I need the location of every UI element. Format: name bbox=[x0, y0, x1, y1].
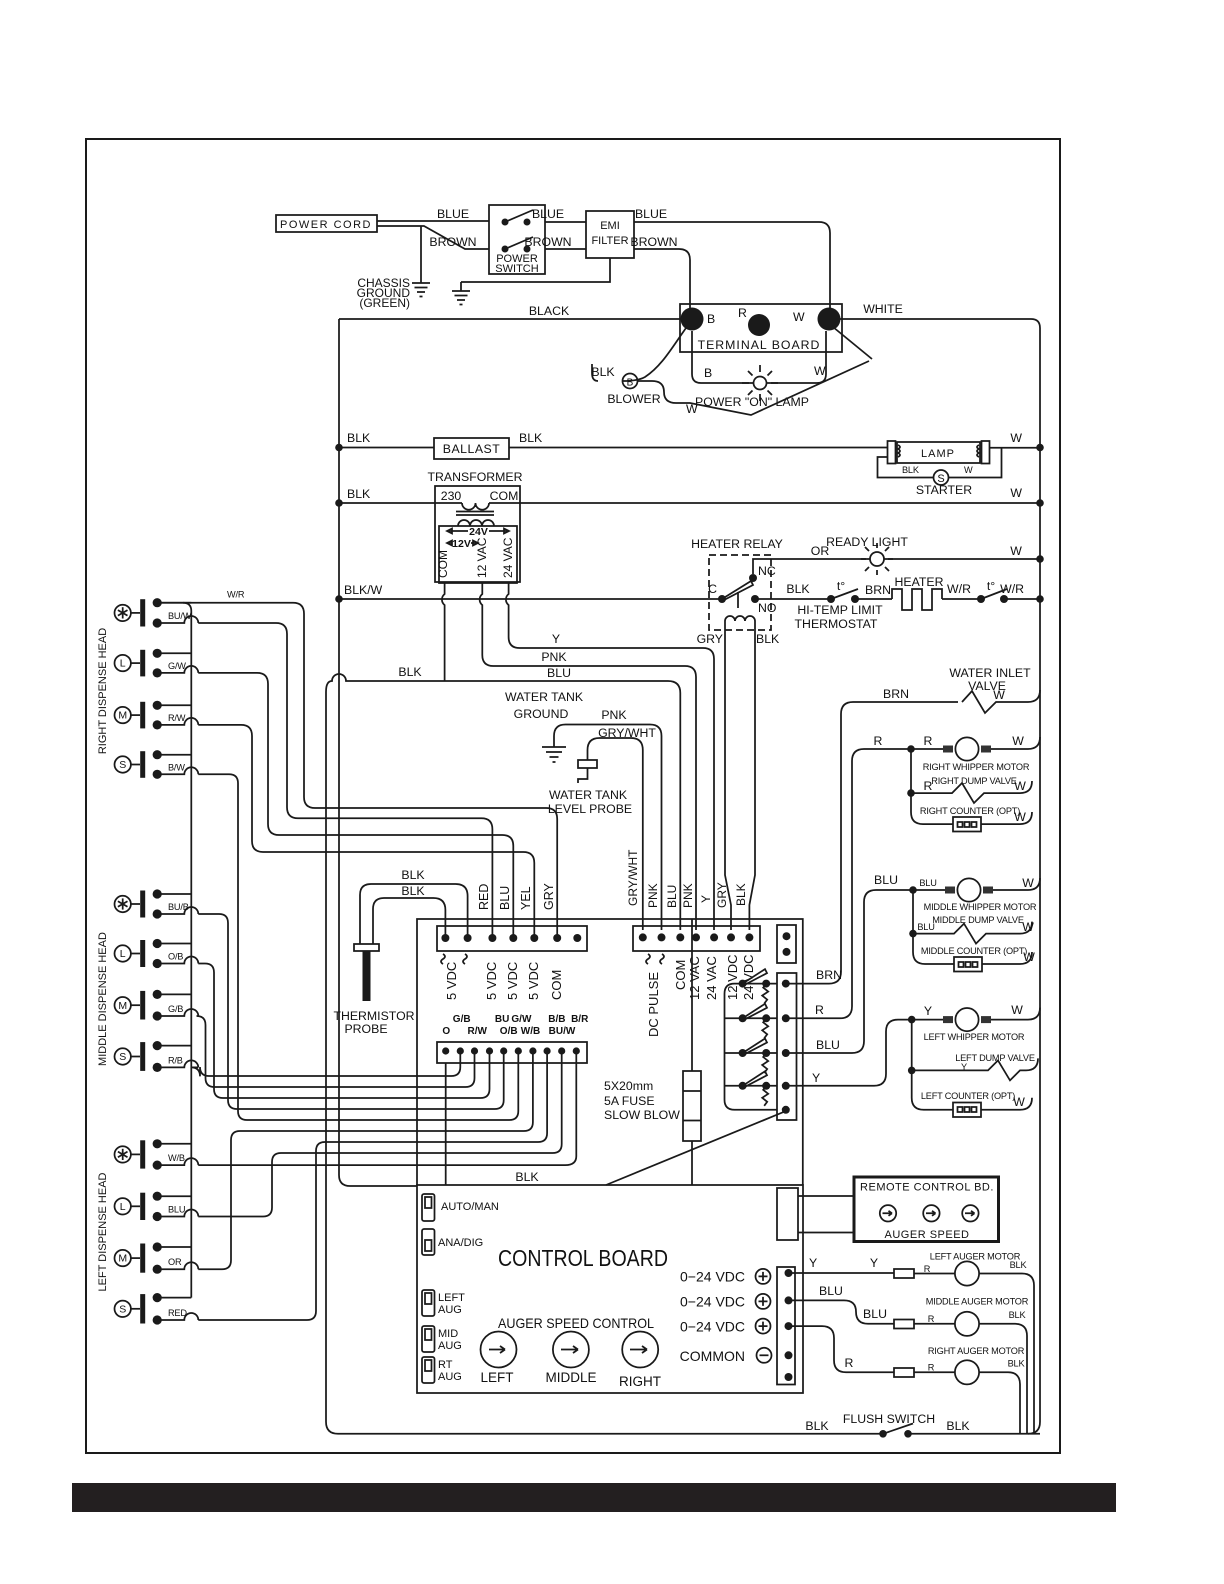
svg-text:EMI: EMI bbox=[600, 220, 620, 232]
ready light row bbox=[790, 535, 1044, 575]
svg-text:M: M bbox=[118, 1000, 127, 1012]
svg-text:B: B bbox=[707, 312, 715, 326]
svg-text:BLK: BLK bbox=[805, 1419, 829, 1433]
svg-text:NO: NO bbox=[758, 601, 776, 615]
svg-text:RIGHT AUGER MOTOR: RIGHT AUGER MOTOR bbox=[928, 1346, 1025, 1356]
wire BLK horizontal to BLU pin3 bbox=[326, 674, 680, 930]
right whipper motor bbox=[874, 734, 1040, 772]
svg-text:BRN: BRN bbox=[865, 583, 891, 597]
svg-text:RIGHT WHIPPER MOTOR: RIGHT WHIPPER MOTOR bbox=[923, 762, 1030, 772]
svg-text:Y: Y bbox=[924, 1004, 932, 1018]
svg-text:BLK: BLK bbox=[902, 465, 920, 475]
svg-text:W: W bbox=[1013, 1095, 1025, 1109]
relay switches bbox=[725, 969, 778, 1110]
terminal board bbox=[680, 304, 842, 352]
svg-text:MIDDLE AUGER MOTOR: MIDDLE AUGER MOTOR bbox=[926, 1297, 1029, 1307]
wire blue EMI to terminal board W bbox=[634, 222, 830, 308]
dispense head contact R/B bbox=[115, 1041, 199, 1072]
svg-text:BLK: BLK bbox=[734, 883, 748, 906]
svg-text:W: W bbox=[1010, 544, 1022, 558]
svg-text:BLK: BLK bbox=[786, 582, 810, 596]
dispense head contact G/B bbox=[115, 990, 199, 1021]
EMI filter bbox=[586, 211, 634, 258]
wire BLU to control connector bbox=[198, 1051, 561, 1217]
svg-text:R: R bbox=[815, 1003, 824, 1017]
svg-text:0−24 VDC: 0−24 VDC bbox=[680, 1269, 745, 1285]
svg-text:BU/W: BU/W bbox=[168, 611, 192, 621]
svg-text:COM: COM bbox=[490, 489, 519, 503]
svg-text:R/B: R/B bbox=[168, 1055, 183, 1065]
svg-text:BLU: BLU bbox=[819, 1284, 843, 1298]
svg-text:(GREEN): (GREEN) bbox=[359, 296, 410, 310]
svg-text:24V: 24V bbox=[469, 526, 488, 538]
svg-text:5X20mm: 5X20mm bbox=[604, 1079, 653, 1093]
svg-text:W/R: W/R bbox=[227, 590, 245, 600]
left whipper motor bbox=[908, 1003, 1040, 1042]
svg-text:W: W bbox=[1022, 876, 1034, 890]
svg-text:FILTER: FILTER bbox=[591, 235, 628, 247]
wire G/W to 5VDC connector bbox=[198, 673, 513, 938]
svg-text:AUGER SPEED CONTROL: AUGER SPEED CONTROL bbox=[498, 1315, 654, 1331]
svg-text:BLACK: BLACK bbox=[529, 304, 570, 318]
svg-text:W: W bbox=[1010, 431, 1022, 445]
svg-text:BLK: BLK bbox=[591, 365, 615, 379]
W/R thermostat switch bbox=[977, 579, 1008, 603]
svg-text:READY LIGHT: READY LIGHT bbox=[826, 535, 908, 549]
svg-text:MIDDLE COUNTER (OPT): MIDDLE COUNTER (OPT) bbox=[921, 946, 1027, 956]
wire white to right bus bbox=[840, 319, 1040, 328]
svg-text:L: L bbox=[120, 658, 126, 670]
svg-text:O/B: O/B bbox=[168, 952, 183, 962]
svg-text:BU/B: BU/B bbox=[168, 902, 189, 912]
svg-text:BRN: BRN bbox=[883, 687, 909, 701]
svg-text:W/B: W/B bbox=[168, 1153, 185, 1163]
svg-text:BLU: BLU bbox=[919, 878, 936, 888]
svg-text:BRN: BRN bbox=[816, 968, 842, 982]
svg-text:R: R bbox=[738, 306, 747, 320]
svg-text:LEFT: LEFT bbox=[480, 1370, 513, 1385]
svg-text:B/R: B/R bbox=[571, 1014, 589, 1025]
fuse 5x20mm bbox=[604, 919, 701, 1185]
switch MID AUG bbox=[422, 1326, 462, 1352]
knob right bbox=[619, 1332, 661, 1390]
remote control board bbox=[854, 1177, 999, 1242]
svg-text:OR: OR bbox=[168, 1257, 182, 1267]
svg-text:S: S bbox=[119, 1051, 126, 1063]
dispense head contact R/W bbox=[115, 701, 199, 730]
svg-text:W: W bbox=[1014, 810, 1026, 824]
output terminal strip bbox=[777, 1267, 795, 1385]
hi-temp thermostat bbox=[786, 579, 891, 631]
dispense head contact BU/W bbox=[115, 598, 199, 628]
svg-text:RED: RED bbox=[477, 884, 491, 910]
svg-text:O/B: O/B bbox=[500, 1026, 518, 1037]
svg-text:BLK: BLK bbox=[946, 1419, 970, 1433]
transformer 24VAC lead to Y bbox=[506, 583, 714, 930]
plus terminals bbox=[756, 1269, 772, 1363]
dispense head contact G/W bbox=[115, 649, 199, 678]
wire blue switch to EMI bbox=[545, 221, 586, 223]
wire brown switch to EMI bbox=[545, 248, 586, 250]
svg-text:B: B bbox=[627, 378, 634, 389]
svg-text:WATER TANK: WATER TANK bbox=[505, 690, 584, 704]
wire G/B to control connector bbox=[197, 1016, 475, 1087]
power switch bbox=[489, 205, 545, 275]
svg-text:5 VDC: 5 VDC bbox=[444, 962, 459, 1000]
svg-text:WATER TANK: WATER TANK bbox=[549, 788, 628, 802]
svg-text:LEFT: LEFT bbox=[438, 1292, 465, 1304]
dispense head contact BU/B bbox=[115, 889, 199, 918]
svg-text:W/R: W/R bbox=[1000, 582, 1024, 596]
svg-text:BLK: BLK bbox=[347, 431, 371, 445]
footer black bar bbox=[72, 1483, 1116, 1512]
dispense head contact BLU bbox=[115, 1192, 199, 1222]
svg-text:W: W bbox=[1014, 779, 1026, 793]
svg-text:COM: COM bbox=[549, 970, 564, 1000]
ground EMI bbox=[452, 282, 470, 305]
svg-text:LEVEL PROBE: LEVEL PROBE bbox=[548, 802, 632, 816]
svg-text:LEFT DISPENSE HEAD: LEFT DISPENSE HEAD bbox=[97, 1172, 109, 1291]
svg-text:S: S bbox=[119, 759, 126, 771]
svg-text:BLK: BLK bbox=[1008, 1359, 1026, 1369]
svg-text:PNK: PNK bbox=[646, 883, 660, 908]
svg-text:GROUND: GROUND bbox=[514, 707, 569, 721]
starter loop bbox=[878, 457, 934, 478]
svg-text:BLUE: BLUE bbox=[532, 207, 564, 221]
dispense head contact O/B bbox=[115, 939, 199, 968]
svg-text:W: W bbox=[814, 364, 826, 378]
svg-text:12 VAC: 12 VAC bbox=[687, 956, 702, 1000]
svg-text:TRANSFORMER: TRANSFORMER bbox=[428, 470, 523, 484]
connector relay strip bbox=[777, 973, 797, 1120]
svg-text:AUG: AUG bbox=[438, 1304, 462, 1316]
DC pulse vertical wire labels bbox=[626, 849, 748, 908]
svg-text:B/B: B/B bbox=[548, 1014, 565, 1025]
svg-text:G/B: G/B bbox=[168, 1004, 183, 1014]
svg-text:BLK: BLK bbox=[347, 487, 371, 501]
water inlet valve bbox=[883, 666, 1040, 713]
svg-text:BLU: BLU bbox=[665, 885, 679, 908]
svg-text:0−24 VDC: 0−24 VDC bbox=[680, 1319, 745, 1335]
svg-text:BLK: BLK bbox=[1009, 1310, 1027, 1320]
svg-text:R: R bbox=[924, 734, 933, 748]
wire BLK thermistor upper bbox=[360, 884, 468, 944]
left auger motor bbox=[789, 1252, 1035, 1434]
svg-text:MIDDLE DUMP VALVE: MIDDLE DUMP VALVE bbox=[932, 915, 1024, 925]
svg-text:BLK: BLK bbox=[515, 1170, 539, 1184]
svg-text:RIGHT DUMP VALVE: RIGHT DUMP VALVE bbox=[931, 776, 1017, 786]
middle whipper motor bbox=[874, 873, 1040, 912]
wire Y relay out to left whipper group bbox=[786, 1020, 912, 1086]
svg-text:5A FUSE: 5A FUSE bbox=[604, 1094, 655, 1108]
svg-text:Y: Y bbox=[809, 1256, 817, 1270]
svg-text:BLU: BLU bbox=[863, 1307, 887, 1321]
wire OR to control connector bbox=[198, 1051, 533, 1269]
remote connector bbox=[777, 1188, 798, 1240]
wire R/B to control connector bbox=[191, 1051, 460, 1076]
svg-text:BLU: BLU bbox=[498, 886, 512, 910]
wire BLK/W vertical to control board bbox=[339, 319, 417, 1186]
svg-text:5 VDC: 5 VDC bbox=[484, 962, 499, 1000]
transformer bbox=[428, 470, 523, 583]
svg-text:BROWN: BROWN bbox=[630, 235, 677, 249]
svg-text:BROWN: BROWN bbox=[524, 235, 571, 249]
middle dump valve bbox=[909, 890, 1034, 944]
control board box bbox=[417, 1185, 803, 1393]
svg-text:PROBE: PROBE bbox=[344, 1022, 387, 1036]
wire W/R to 5VDC connector bbox=[157, 603, 557, 938]
svg-text:PNK: PNK bbox=[601, 708, 627, 722]
dispense head contact OR bbox=[115, 1242, 199, 1273]
wire O/B to control connector bbox=[198, 964, 489, 1099]
right counter bbox=[911, 793, 1032, 831]
svg-text:BLUE: BLUE bbox=[635, 207, 667, 221]
svg-text:24 VAC: 24 VAC bbox=[704, 956, 719, 1000]
svg-text:5 VDC: 5 VDC bbox=[526, 962, 541, 1000]
wire BLK/W main bbox=[339, 598, 722, 600]
svg-text:Y: Y bbox=[552, 632, 560, 646]
svg-text:ANA/DIG: ANA/DIG bbox=[438, 1237, 483, 1249]
svg-text:GRY/WHT: GRY/WHT bbox=[598, 726, 656, 740]
wire W/B to control connector bbox=[198, 1051, 576, 1165]
svg-text:POWER CORD: POWER CORD bbox=[280, 219, 372, 231]
transformer COM lead down to BLK wire bbox=[442, 583, 445, 681]
svg-text:RIGHT DISPENSE HEAD: RIGHT DISPENSE HEAD bbox=[97, 628, 109, 754]
connector strip 5VDC bbox=[437, 926, 587, 951]
connector strip 10-pin bbox=[437, 1042, 587, 1063]
svg-text:AUG: AUG bbox=[438, 1371, 462, 1383]
svg-text:24 VAC: 24 VAC bbox=[501, 537, 515, 578]
wire green power cord to chassis ground bbox=[420, 226, 422, 283]
svg-text:M: M bbox=[118, 1253, 127, 1265]
svg-text:LAMP: LAMP bbox=[921, 448, 955, 460]
svg-text:R: R bbox=[874, 734, 883, 748]
svg-text:t°: t° bbox=[987, 579, 995, 593]
svg-text:LEFT COUNTER (OPT): LEFT COUNTER (OPT) bbox=[921, 1091, 1015, 1101]
svg-text:Y: Y bbox=[870, 1256, 878, 1270]
svg-text:L: L bbox=[120, 1201, 126, 1213]
wire R/W to 5VDC connector bbox=[198, 725, 534, 938]
svg-text:230: 230 bbox=[441, 489, 462, 503]
knob middle bbox=[545, 1332, 596, 1386]
thermistor probe bbox=[333, 944, 414, 1036]
svg-text:R/W: R/W bbox=[168, 713, 186, 723]
svg-text:MIDDLE: MIDDLE bbox=[545, 1370, 596, 1385]
svg-text:t°: t° bbox=[837, 579, 845, 593]
svg-text:R: R bbox=[924, 1264, 931, 1274]
svg-text:PNK: PNK bbox=[681, 883, 695, 908]
switch AUTO/MAN bbox=[422, 1194, 499, 1221]
right auger motor bbox=[789, 1326, 1026, 1434]
svg-text:REMOTE CONTROL BD.: REMOTE CONTROL BD. bbox=[860, 1182, 994, 1194]
svg-text:W: W bbox=[1022, 920, 1034, 934]
power on lamp loop bbox=[692, 331, 826, 409]
svg-text:FLUSH SWITCH: FLUSH SWITCH bbox=[843, 1412, 935, 1426]
svg-text:AUG: AUG bbox=[438, 1340, 462, 1352]
svg-text:BLK: BLK bbox=[401, 868, 425, 882]
heater element bbox=[892, 575, 971, 610]
svg-text:HI-TEMP LIMIT: HI-TEMP LIMIT bbox=[797, 603, 883, 617]
svg-text:AUTO/MAN: AUTO/MAN bbox=[441, 1201, 499, 1213]
svg-text:RIGHT COUNTER (OPT): RIGHT COUNTER (OPT) bbox=[920, 806, 1020, 816]
svg-text:BLK: BLK bbox=[398, 665, 422, 679]
wire BU/B to control connector bbox=[198, 914, 503, 1109]
svg-text:LEFT AUGER MOTOR: LEFT AUGER MOTOR bbox=[930, 1252, 1021, 1262]
wire BLK down to flush line bbox=[325, 692, 327, 1410]
svg-text:R: R bbox=[845, 1356, 854, 1370]
svg-text:SWITCH: SWITCH bbox=[495, 263, 538, 275]
wire BU/W to 5VDC connector bbox=[198, 623, 492, 938]
svg-text:GRY/WHT: GRY/WHT bbox=[626, 849, 640, 906]
svg-text:0−24 VDC: 0−24 VDC bbox=[680, 1294, 745, 1310]
svg-text:WATER INLET: WATER INLET bbox=[949, 666, 1031, 680]
svg-text:W: W bbox=[1011, 1003, 1023, 1017]
switch RT AUG bbox=[422, 1357, 462, 1383]
connector 2-pin bbox=[777, 925, 796, 963]
svg-text:PNK: PNK bbox=[541, 650, 567, 664]
flush switch bbox=[805, 1412, 970, 1438]
svg-text:RED: RED bbox=[168, 1308, 187, 1318]
svg-text:RT: RT bbox=[438, 1359, 453, 1371]
svg-text:LEFT DUMP VALVE: LEFT DUMP VALVE bbox=[955, 1053, 1035, 1063]
svg-text:12V: 12V bbox=[452, 538, 471, 550]
wire RED to control connector bbox=[198, 1051, 547, 1320]
svg-text:WHITE: WHITE bbox=[863, 302, 903, 316]
middle counter bbox=[913, 934, 1035, 972]
svg-text:BLK/W: BLK/W bbox=[344, 583, 383, 597]
left common bus bbox=[183, 603, 191, 1298]
svg-text:BLK: BLK bbox=[756, 632, 780, 646]
wire BRN relay out to water inlet valve bbox=[786, 702, 958, 984]
svg-text:B: B bbox=[704, 366, 712, 380]
right dump valve bbox=[907, 749, 1032, 803]
svg-text:12 VAC: 12 VAC bbox=[475, 537, 489, 578]
svg-text:BLOWER: BLOWER bbox=[607, 392, 660, 406]
wire blue power cord to switch bbox=[377, 220, 489, 222]
lamp fluorescent bbox=[878, 441, 1041, 497]
svg-text:Y: Y bbox=[812, 1071, 820, 1085]
svg-text:5 VDC: 5 VDC bbox=[505, 962, 520, 1000]
svg-text:COMMON: COMMON bbox=[680, 1348, 745, 1364]
heater relay bbox=[691, 537, 790, 930]
svg-text:G/B: G/B bbox=[453, 1014, 471, 1025]
svg-text:BU/W: BU/W bbox=[549, 1026, 576, 1037]
knob left bbox=[480, 1332, 516, 1386]
svg-text:AUGER SPEED: AUGER SPEED bbox=[885, 1229, 970, 1241]
wire diagonal relay to control board bbox=[606, 1111, 786, 1185]
left dump valve bbox=[908, 1020, 1038, 1081]
svg-text:RIGHT: RIGHT bbox=[619, 1374, 661, 1389]
connector DC pulse bbox=[633, 926, 760, 951]
wire pin1 down to control board bbox=[445, 1063, 447, 1185]
wire black bbox=[339, 318, 681, 320]
svg-text:W/B: W/B bbox=[521, 1026, 540, 1037]
water tank ground bbox=[505, 690, 662, 930]
svg-text:M: M bbox=[118, 710, 127, 722]
svg-text:TERMINAL BOARD: TERMINAL BOARD bbox=[698, 338, 821, 352]
svg-text:W: W bbox=[1010, 486, 1022, 500]
wire BLK bottom flush line bbox=[326, 1410, 883, 1434]
svg-text:NC: NC bbox=[758, 564, 776, 578]
svg-text:Y: Y bbox=[699, 895, 713, 903]
svg-text:W: W bbox=[993, 688, 1005, 702]
dispense head contact W/B bbox=[115, 1139, 199, 1169]
transformer 12VAC lead to PNK bbox=[480, 583, 696, 930]
svg-text:R: R bbox=[928, 1314, 935, 1324]
svg-text:BLU: BLU bbox=[547, 666, 571, 680]
svg-text:W/R: W/R bbox=[947, 582, 971, 596]
svg-text:HEATER RELAY: HEATER RELAY bbox=[691, 537, 783, 551]
svg-text:THERMOSTAT: THERMOSTAT bbox=[795, 617, 878, 631]
svg-text:G/W: G/W bbox=[168, 661, 186, 671]
left counter bbox=[912, 1070, 1032, 1117]
chassis ground text bbox=[357, 276, 411, 310]
middle auger motor bbox=[789, 1284, 1029, 1434]
wire brown EMI to terminal board B bbox=[634, 249, 690, 308]
svg-text:GRY: GRY bbox=[697, 632, 723, 646]
svg-text:R/W: R/W bbox=[467, 1026, 487, 1037]
svg-text:BU: BU bbox=[495, 1014, 509, 1025]
labels blue/brown bbox=[429, 207, 677, 249]
svg-text:MID: MID bbox=[438, 1328, 458, 1340]
svg-text:BLK: BLK bbox=[519, 431, 543, 445]
wire brown power cord to switch bbox=[377, 226, 489, 249]
wire BLK thermistor lower bbox=[373, 898, 445, 944]
svg-text:W: W bbox=[1012, 734, 1024, 748]
wire R relay out to right whipper group bbox=[786, 749, 911, 1018]
ground chassis bbox=[412, 283, 430, 297]
svg-text:BLK: BLK bbox=[401, 884, 425, 898]
svg-text:CONTROL BOARD: CONTROL BOARD bbox=[498, 1245, 668, 1271]
svg-text:O: O bbox=[442, 1026, 450, 1037]
page border bbox=[86, 139, 1060, 1453]
svg-text:BLU: BLU bbox=[874, 873, 898, 887]
svg-text:BLK: BLK bbox=[1010, 1260, 1028, 1270]
wire EMI ground bbox=[461, 258, 610, 282]
svg-text:YEL: YEL bbox=[519, 886, 533, 910]
svg-text:DC PULSE: DC PULSE bbox=[646, 972, 661, 1037]
water tank level probe bbox=[548, 726, 657, 930]
svg-text:MIDDLE DISPENSE HEAD: MIDDLE DISPENSE HEAD bbox=[97, 932, 109, 1066]
svg-text:BLU: BLU bbox=[168, 1205, 185, 1215]
wire BLU relay out to middle whipper group bbox=[786, 890, 913, 1053]
blower bbox=[591, 327, 872, 416]
wires to remote bd bbox=[798, 1196, 854, 1233]
svg-text:BALLAST: BALLAST bbox=[443, 442, 501, 456]
svg-text:BLU: BLU bbox=[816, 1038, 840, 1052]
wire B/W to control connector bbox=[198, 774, 518, 1120]
svg-text:W: W bbox=[793, 310, 805, 324]
switch ANA/DIG bbox=[422, 1229, 483, 1255]
svg-text:G/W: G/W bbox=[511, 1014, 532, 1025]
svg-text:STARTER: STARTER bbox=[916, 483, 972, 497]
svg-text:BLUE: BLUE bbox=[437, 207, 469, 221]
switch LEFT AUG bbox=[422, 1290, 465, 1316]
svg-text:GRY: GRY bbox=[542, 882, 556, 910]
dispense head contact B/W bbox=[115, 750, 199, 779]
svg-text:R: R bbox=[928, 1363, 935, 1373]
svg-text:B/W: B/W bbox=[168, 762, 185, 772]
power cord bbox=[276, 215, 377, 232]
svg-text:THERMISTOR: THERMISTOR bbox=[333, 1009, 414, 1023]
svg-text:MIDDLE WHIPPER MOTOR: MIDDLE WHIPPER MOTOR bbox=[924, 902, 1037, 912]
svg-text:W: W bbox=[686, 402, 698, 416]
svg-text:LEFT WHIPPER MOTOR: LEFT WHIPPER MOTOR bbox=[924, 1032, 1025, 1042]
output labels bbox=[680, 1269, 745, 1365]
right bus bbox=[1039, 328, 1041, 1410]
svg-text:HEATER: HEATER bbox=[895, 575, 944, 589]
wire control board loop bbox=[417, 919, 803, 1185]
